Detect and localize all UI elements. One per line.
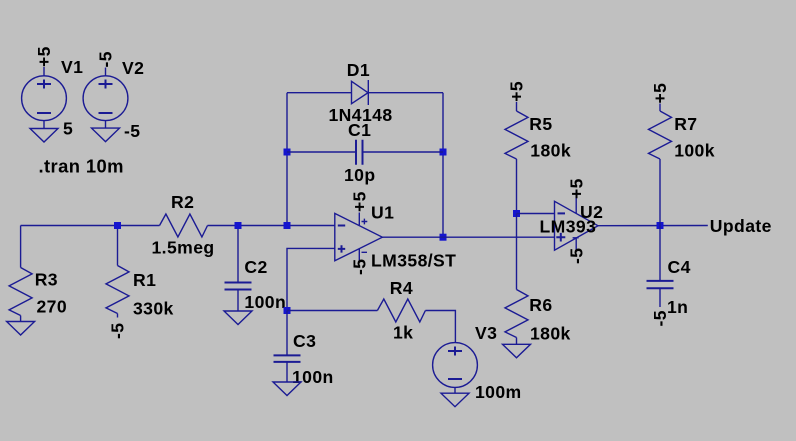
svg-text:LM358/ST: LM358/ST (371, 251, 456, 271)
wire C3 top lead (286, 311, 288, 356)
wire diode left lead (287, 92, 352, 94)
ground (C2) (224, 311, 252, 325)
svg-text:270: 270 (37, 297, 68, 317)
svg-text:R6: R6 (529, 295, 552, 315)
svg-text:+5: +5 (650, 83, 670, 104)
diode D1 (352, 80, 369, 105)
svg-text:-5: -5 (650, 310, 670, 326)
ground (R3) (7, 322, 35, 336)
resistor R1 (106, 266, 129, 318)
wire right feedback rail (442, 93, 444, 238)
wire U2 inverting input (517, 213, 555, 215)
ground (R6) (503, 344, 531, 358)
op-amp U1 (335, 213, 383, 263)
svg-text:-5: -5 (566, 248, 586, 264)
wire left feedback rail (286, 93, 288, 226)
wire R6 top (516, 214, 518, 290)
svg-text:1.5meg: 1.5meg (152, 238, 215, 258)
svg-text:.tran 10m: .tran 10m (39, 156, 124, 177)
junction rail/C1 right (440, 149, 447, 156)
capacitor C1 (356, 140, 363, 165)
svg-text:-5: -5 (96, 51, 116, 67)
svg-text:100m: 100m (475, 382, 522, 402)
svg-text:330k: 330k (133, 299, 174, 319)
resistor R3 (9, 268, 32, 322)
svg-text:+5: +5 (566, 178, 586, 199)
ground (C3) (273, 382, 301, 396)
ground (V3) (441, 393, 469, 407)
voltage source V2 (83, 68, 128, 129)
junction R1/main (114, 222, 121, 229)
capacitor C2 (225, 283, 252, 312)
svg-text:5: 5 (63, 119, 73, 139)
svg-text:100n: 100n (244, 292, 286, 312)
junction rail/main (284, 222, 291, 229)
svg-text:C3: C3 (293, 331, 316, 351)
svg-text:180k: 180k (530, 324, 571, 344)
resistor R6 (505, 290, 528, 345)
comparator U2 (555, 190, 599, 250)
svg-text:+5: +5 (507, 81, 527, 102)
junction R7/C4/output (657, 222, 664, 229)
svg-text:U1: U1 (371, 203, 394, 223)
svg-text:C4: C4 (668, 257, 691, 277)
resistor R7 (649, 104, 672, 226)
svg-text:100k: 100k (674, 141, 715, 161)
wire U2 output (598, 225, 708, 227)
svg-text:V3: V3 (475, 323, 497, 343)
svg-text:180k: 180k (530, 141, 571, 161)
svg-text:R4: R4 (390, 278, 413, 298)
svg-text:R5: R5 (529, 114, 552, 134)
svg-text:+5: +5 (350, 191, 370, 212)
junction rail/C1 (284, 149, 291, 156)
svg-text:C1: C1 (348, 120, 371, 140)
wire left drop to R3 (20, 226, 22, 268)
ground (V1) (30, 129, 58, 143)
svg-text:10p: 10p (344, 165, 376, 185)
wire C2 top (237, 226, 239, 283)
svg-text:Update: Update (710, 216, 772, 236)
resistor R4 (377, 299, 425, 322)
svg-text:C2: C2 (244, 257, 267, 277)
svg-text:LM393: LM393 (540, 217, 597, 237)
svg-text:-5: -5 (108, 323, 128, 339)
voltage source V1 (22, 67, 67, 129)
svg-text:-5: -5 (124, 121, 140, 141)
svg-text:D1: D1 (347, 60, 370, 80)
junction R5/R6/U2 (513, 210, 520, 217)
svg-text:R1: R1 (133, 270, 156, 290)
svg-text:+5: +5 (34, 46, 54, 67)
capacitor C4 (647, 281, 674, 307)
svg-text:R2: R2 (171, 192, 194, 212)
svg-text:R3: R3 (35, 270, 58, 290)
wire C1 right lead (363, 151, 444, 153)
wire C4 top (659, 226, 661, 281)
resistor R5 (505, 102, 528, 214)
wire R4 to V3 (425, 311, 455, 343)
wire main horizontal input net (right of R2) (208, 225, 335, 227)
wire main horizontal input net (left of R2) (21, 225, 160, 227)
wire U1 output to U2 input (382, 236, 554, 238)
junction C3/R4 (284, 307, 291, 314)
ground (V2) (92, 128, 120, 142)
junction C2/main (235, 222, 242, 229)
wire R4 left lead (287, 310, 377, 312)
junction U1 output (440, 234, 447, 241)
svg-text:-5: -5 (350, 259, 370, 275)
svg-text:R7: R7 (674, 114, 697, 134)
capacitor C3 (274, 355, 301, 382)
wire U1 noninverting input (287, 248, 335, 310)
svg-text:1k: 1k (393, 323, 413, 343)
wire diode right lead (368, 92, 443, 94)
wire C1 left lead (287, 151, 356, 153)
svg-text:1n: 1n (667, 297, 688, 317)
svg-text:V2: V2 (122, 58, 144, 78)
svg-text:V1: V1 (61, 57, 83, 77)
wire R1 top (117, 226, 119, 266)
voltage source V3 (433, 343, 478, 394)
resistor R2 (160, 214, 208, 237)
